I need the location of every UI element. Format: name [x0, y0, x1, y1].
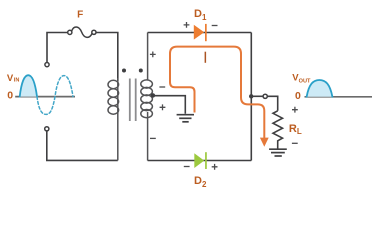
top rail wire (secondary to D1 to right rail): [148, 32, 252, 34]
phase dot right: [139, 69, 143, 73]
Vout half-sine hump: [307, 80, 333, 97]
ground (center tap): [177, 115, 194, 122]
wire fuse to transformer primary: [96, 33, 118, 82]
phase dot left: [122, 69, 126, 73]
Vin waveform axis: [15, 96, 75, 98]
Vin solid half-sine hump: [20, 75, 37, 96]
ground (RL): [269, 149, 287, 156]
plus below center tap: [160, 104, 166, 110]
input terminal top: [45, 63, 49, 67]
minus at RL bottom: [292, 142, 298, 144]
svg-text:0: 0: [295, 90, 301, 102]
wire top-left (terminal to fuse): [47, 33, 68, 63]
input terminal bottom: [45, 127, 49, 131]
svg-text:0: 0: [7, 90, 13, 102]
minus at D2 anode: [184, 166, 190, 168]
label I: [205, 52, 207, 63]
right rail wire: [250, 33, 252, 161]
transformer primary winding L1: [108, 78, 119, 160]
current arrowhead: [260, 138, 269, 147]
minus above center tap: [159, 86, 165, 88]
plus at D2 cathode: [212, 164, 218, 170]
fuse F: [68, 27, 96, 37]
wire bottom-left (terminal to transformer): [47, 131, 118, 160]
plus at secondary top: [150, 52, 156, 58]
Vin dashed sine continuation: [37, 76, 73, 115]
orange current path I: [170, 47, 264, 138]
svg-text:IN: IN: [14, 78, 20, 84]
plus at RL top: [292, 107, 298, 113]
minus at secondary bottom: [150, 137, 156, 139]
svg-text:F: F: [77, 9, 83, 20]
transformer core: [129, 79, 131, 122]
junction node: [249, 94, 253, 98]
Vout waveform axis: [305, 96, 373, 98]
center tap node: [151, 93, 155, 97]
diode D1: [194, 24, 207, 41]
transformer secondary winding L2: [141, 33, 153, 161]
wire center tap to ground: [153, 96, 185, 114]
resistor RL: [273, 111, 283, 149]
wire terminal to resistor: [267, 96, 277, 111]
bottom rail wire (secondary to D2 to right rail): [148, 160, 252, 162]
diode D2: [194, 152, 207, 169]
minus at D1 cathode: [212, 25, 218, 27]
plus at D1 anode: [184, 22, 190, 28]
output terminal circle: [263, 94, 267, 98]
wire junction to output terminal: [253, 95, 263, 97]
svg-text:OUT: OUT: [299, 78, 311, 84]
